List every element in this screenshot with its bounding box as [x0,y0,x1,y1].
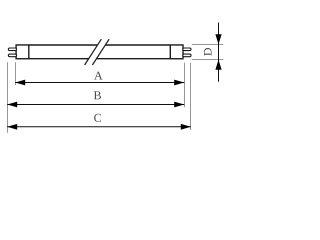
extension lines (gray) [8,45,224,133]
right pin top [183,48,191,51]
arrow D top (pointing down) [215,34,221,44]
right end cap [170,45,183,59]
left end cap [16,45,29,59]
dimension line B [7,104,184,106]
break symbol diagonal 1 [85,39,102,65]
arrow A left [15,80,25,86]
arrow A right [174,80,184,86]
ext line D bottom [192,59,224,61]
left pin top [8,48,16,51]
ext line right pin tips [190,63,192,130]
break symbol diagonal 2 [92,39,109,65]
arrow C left [7,124,17,130]
ext line left pin tips [7,62,9,132]
arrow B right [174,102,184,108]
dimension line C [7,126,191,128]
lamp tube bottom outline [29,58,171,60]
left pin bottom [8,54,16,57]
dimension line A [15,82,184,84]
dimension line D vertical [218,23,220,82]
arrow C right [181,124,191,130]
svg-text:B: B [93,88,101,102]
lamp tube top outline [29,45,171,59]
svg-text:A: A [94,68,103,82]
svg-text:C: C [94,111,102,125]
svg-text:D: D [201,47,215,56]
right pin bottom [183,54,191,57]
ext line right cap face [184,63,186,107]
arrow D bottom (pointing up) [215,60,221,70]
arrow B left [7,102,17,108]
ext line left cap face [15,62,17,85]
ext line D top [192,44,224,46]
